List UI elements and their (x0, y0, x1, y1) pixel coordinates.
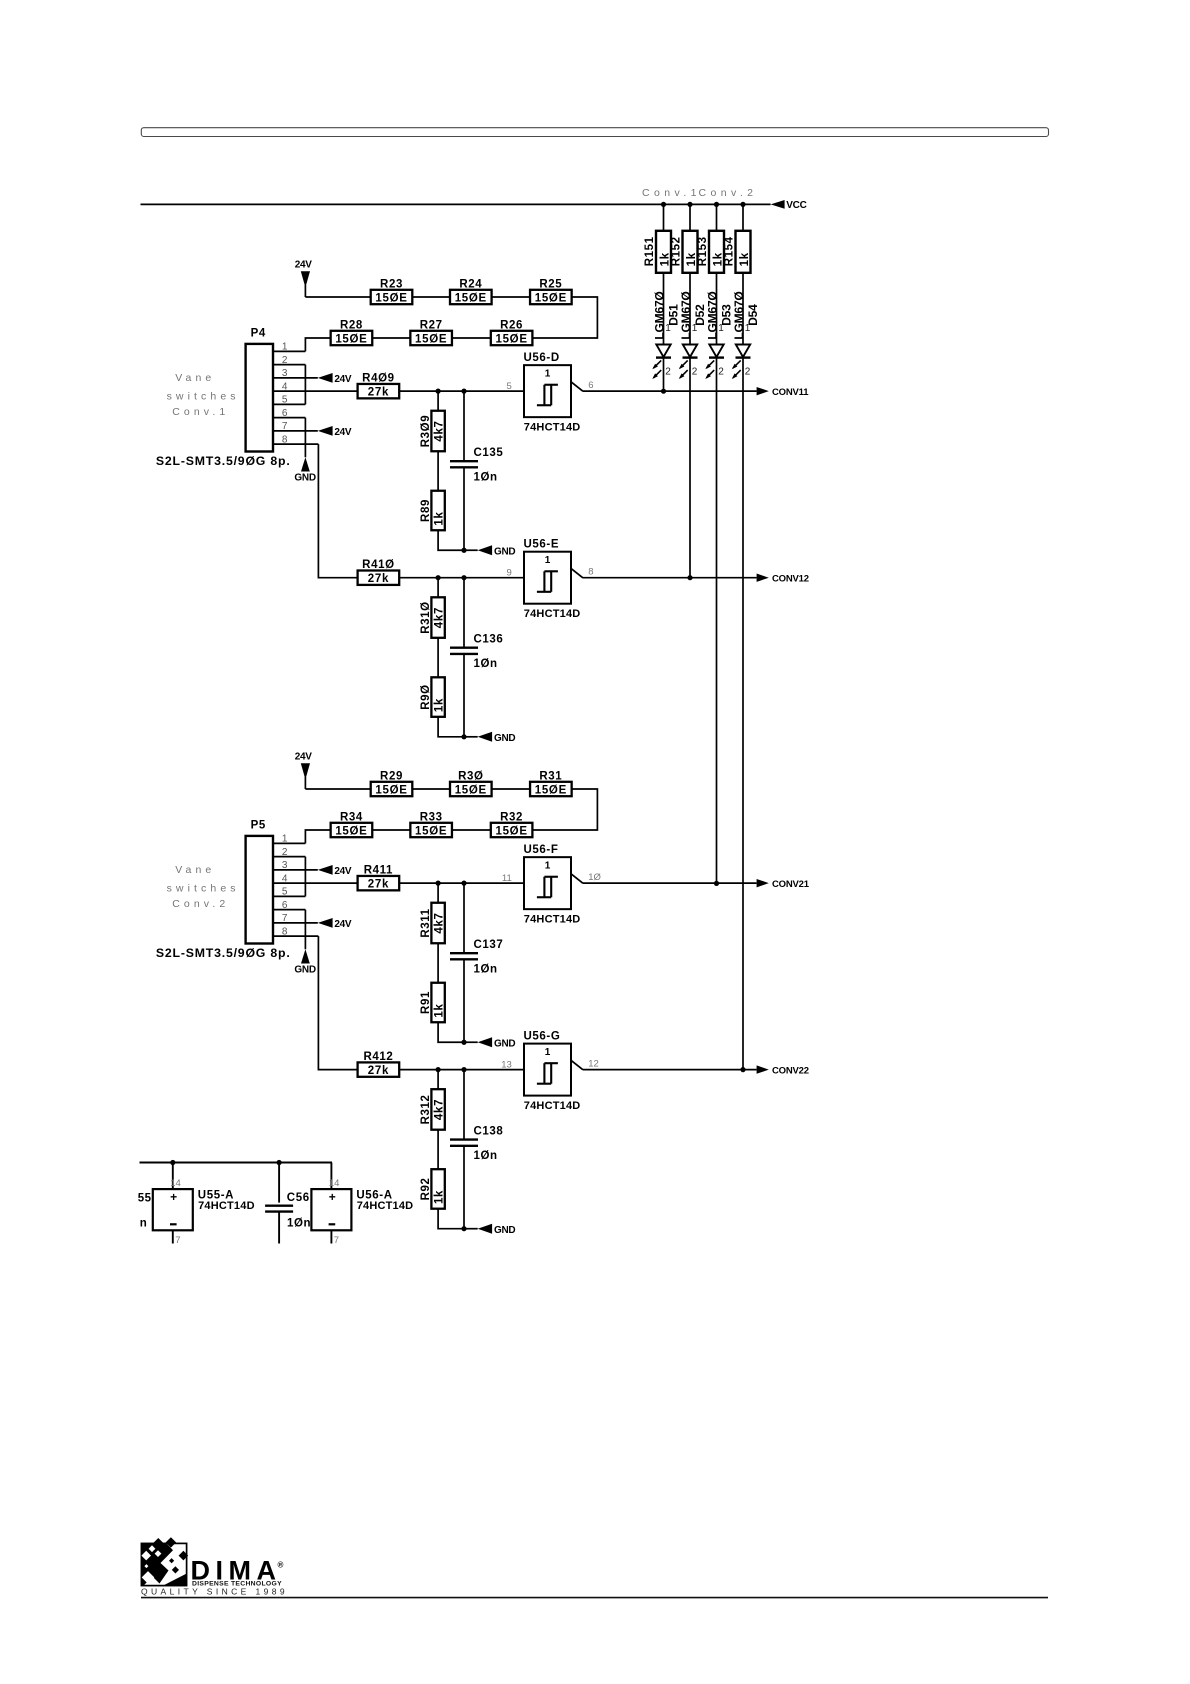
wire (399, 390, 524, 392)
svg-text:2: 2 (745, 367, 751, 378)
inverter U56-F (524, 857, 583, 909)
wire bracket pins 2-5 (304, 857, 306, 897)
svg-text:15ØE: 15ØE (495, 825, 527, 837)
wire (273, 935, 318, 937)
svg-text:27k: 27k (368, 878, 389, 890)
wire (463, 959, 465, 1042)
svg-text:R92: R92 (420, 1177, 432, 1200)
svg-text:2: 2 (692, 367, 698, 378)
resistor R9&#216; (431, 677, 444, 717)
wire (412, 296, 450, 298)
wire (273, 856, 305, 858)
capacitor C136 (450, 648, 478, 654)
LED D51 LGM67&#216; (652, 345, 671, 380)
power pins U55-A (153, 1189, 193, 1230)
resistor R25 (530, 290, 572, 304)
ground (478, 1224, 516, 1236)
svg-text:9: 9 (507, 568, 512, 579)
wire (399, 1069, 524, 1071)
LED D53 LGM67&#216; (705, 345, 724, 380)
svg-text:1: 1 (545, 555, 551, 566)
junction (277, 1160, 282, 1165)
svg-text:S2L-SMT3.5/9ØG 8p.: S2L-SMT3.5/9ØG 8p. (156, 454, 291, 468)
junction (461, 734, 466, 739)
wire bracket pins 2-5 (304, 365, 306, 405)
svg-text:15ØE: 15ØE (495, 333, 527, 345)
wire (438, 717, 464, 737)
svg-text:Conv.1: Conv.1 (642, 187, 701, 199)
svg-text:27k: 27k (368, 573, 389, 585)
svg-text:8: 8 (588, 567, 593, 578)
svg-text:R3Ø: R3Ø (458, 770, 483, 782)
svg-text:P5: P5 (251, 820, 266, 832)
junction (461, 1226, 466, 1231)
svg-text:R89: R89 (420, 499, 432, 522)
power 24V (318, 865, 352, 877)
svg-text:1k: 1k (712, 252, 724, 266)
svg-text:Vane: Vane (175, 372, 215, 384)
wire (464, 549, 478, 551)
svg-text:1k: 1k (434, 698, 446, 712)
junction (714, 202, 719, 207)
wire (437, 578, 439, 598)
svg-text:U56-G: U56-G (524, 1030, 561, 1042)
ground (294, 949, 315, 975)
svg-text:CONV21: CONV21 (772, 879, 810, 890)
svg-text:R24: R24 (459, 278, 482, 290)
svg-text:R3Ø9: R3Ø9 (420, 415, 432, 447)
svg-text:1Øn: 1Øn (474, 963, 498, 975)
svg-text:74HCT14D: 74HCT14D (524, 913, 581, 925)
wire (372, 337, 410, 339)
wire CONV11 row (583, 390, 757, 392)
svg-text:1: 1 (718, 323, 724, 334)
svg-text:+: + (170, 1190, 177, 1204)
wire (372, 829, 410, 831)
svg-text:Vane: Vane (175, 864, 215, 876)
svg-text:R32: R32 (500, 811, 523, 823)
svg-text:Conv.2: Conv.2 (172, 898, 229, 910)
resistor R31&#216; (431, 597, 444, 638)
wire (689, 204, 691, 230)
svg-text:R151: R151 (644, 236, 656, 266)
ground (478, 545, 516, 557)
wire CONV22 row (583, 1069, 757, 1071)
wire (438, 1022, 464, 1042)
wire VCC rail (141, 203, 771, 205)
wire (273, 443, 318, 445)
wire (273, 909, 305, 911)
wire (438, 530, 464, 550)
resistor R92 (431, 1169, 444, 1209)
svg-text:P4: P4 (251, 328, 266, 340)
wire C56 bottom (278, 1212, 280, 1244)
power 24V (318, 373, 352, 385)
wire (273, 417, 305, 419)
wire (399, 882, 524, 884)
svg-text:1k: 1k (686, 252, 698, 266)
svg-text:CONV11: CONV11 (772, 387, 809, 398)
junction (714, 881, 719, 886)
resistor R89 (431, 491, 444, 531)
svg-text:1: 1 (545, 1047, 551, 1058)
wire pin8 down (318, 444, 357, 578)
svg-text:1: 1 (545, 861, 551, 872)
svg-text:U56-F: U56-F (524, 844, 559, 856)
svg-text:R312: R312 (420, 1094, 432, 1124)
svg-text:15ØE: 15ØE (455, 292, 487, 304)
svg-text:®: ® (278, 1561, 284, 1570)
svg-text:55: 55 (138, 1193, 152, 1205)
note vane switches Conv.2 (167, 864, 240, 910)
svg-text:12: 12 (588, 1059, 599, 1070)
net CONV11 (757, 387, 810, 398)
wire (463, 883, 465, 953)
capacitor C137 (450, 953, 478, 959)
wire (532, 297, 598, 338)
svg-text:GND: GND (494, 546, 515, 557)
resistor R3&#216;9 (431, 411, 444, 452)
svg-text:15ØE: 15ØE (415, 333, 447, 345)
svg-text:U56-D: U56-D (524, 352, 560, 364)
ground (478, 1037, 516, 1049)
resistor R154 (736, 231, 751, 273)
junction (436, 881, 441, 886)
svg-text:R23: R23 (380, 278, 403, 290)
power VCC (771, 200, 807, 211)
svg-text:1: 1 (665, 323, 671, 334)
wire (437, 1130, 439, 1170)
svg-text:S2L-SMT3.5/9ØG 8p.: S2L-SMT3.5/9ØG 8p. (156, 946, 291, 960)
wire (273, 895, 305, 897)
capacitor C135 (450, 461, 478, 467)
resistor R27 (410, 331, 452, 345)
resistor R311 (431, 903, 444, 944)
wire (412, 788, 450, 790)
junction (461, 1067, 466, 1072)
junction (661, 389, 666, 394)
svg-text:4k7: 4k7 (434, 1099, 446, 1120)
wire bracket pins 6-8 (304, 910, 306, 950)
resistor R3&#216; (450, 782, 492, 796)
svg-text:74HCT14D: 74HCT14D (524, 1100, 581, 1112)
wire CONV12 row (583, 577, 757, 579)
wire (452, 337, 490, 339)
svg-text:Conv.1: Conv.1 (172, 406, 229, 418)
resistor R31 (530, 782, 572, 796)
LED D54 LGM67&#216; (732, 345, 751, 380)
net CONV22 (757, 1065, 809, 1076)
wire pin 14 (330, 1163, 332, 1190)
wire (437, 943, 439, 983)
power 24V (295, 752, 313, 789)
svg-text:switches: switches (167, 882, 240, 894)
wire (463, 1070, 465, 1140)
junction (436, 575, 441, 580)
wire (305, 296, 371, 298)
wire pin 7 (330, 1230, 332, 1243)
svg-text:R411: R411 (364, 865, 393, 877)
LED D52 LGM67&#216; (679, 345, 698, 380)
svg-text:R31: R31 (539, 770, 562, 782)
svg-text:6: 6 (588, 380, 593, 391)
capacitor C56 (265, 1206, 293, 1212)
svg-text:1k: 1k (739, 252, 751, 266)
svg-text:24V: 24V (334, 919, 352, 930)
wire D54 anode (742, 273, 744, 345)
svg-text:GND: GND (494, 1038, 515, 1049)
svg-text:4k7: 4k7 (434, 912, 446, 933)
wire pin 1 to resistors (305, 338, 330, 351)
wire (273, 882, 358, 884)
svg-text:13: 13 (501, 1060, 512, 1071)
junction (436, 389, 441, 394)
wire (438, 1209, 464, 1229)
svg-text:C135: C135 (474, 447, 504, 459)
svg-text:1Øn: 1Øn (474, 471, 498, 483)
svg-text:1Øn: 1Øn (287, 1217, 311, 1229)
wire (437, 451, 439, 491)
resistor R23 (371, 290, 413, 304)
svg-text:11: 11 (502, 873, 512, 884)
resistor R153 (709, 231, 724, 273)
svg-text:1k: 1k (434, 1003, 446, 1017)
svg-text:QUALITY SINCE 1989: QUALITY SINCE 1989 (141, 1586, 288, 1596)
svg-text:1k: 1k (434, 1190, 446, 1204)
svg-text:74HCT14D: 74HCT14D (357, 1200, 414, 1212)
svg-text:R29: R29 (380, 770, 403, 782)
resistor R410 (358, 571, 400, 585)
svg-text:15ØE: 15ØE (535, 784, 567, 796)
wire (273, 350, 305, 352)
wire (463, 578, 465, 648)
wire pin 7 (172, 1230, 174, 1243)
wire D54 cathode (742, 358, 744, 1070)
svg-text:2: 2 (665, 367, 671, 378)
svg-text:CONV12: CONV12 (772, 573, 809, 584)
wire pin 1 to resistors (305, 830, 330, 843)
wire pin 14 (172, 1163, 174, 1190)
resistor R412 (358, 1062, 400, 1076)
wire D52 anode (689, 273, 691, 345)
svg-text:C56: C56 (287, 1192, 310, 1204)
svg-text:R4Ø9: R4Ø9 (362, 373, 394, 385)
svg-text:1: 1 (745, 323, 751, 334)
svg-text:4k7: 4k7 (434, 420, 446, 441)
svg-text:1k: 1k (434, 511, 446, 525)
svg-text:R153: R153 (697, 236, 709, 266)
svg-text:1Øn: 1Øn (474, 1150, 498, 1162)
svg-text:1k: 1k (659, 252, 671, 266)
svg-text:R27: R27 (420, 319, 443, 331)
svg-text:R152: R152 (671, 236, 683, 266)
wire (273, 842, 305, 844)
svg-text:1: 1 (692, 323, 698, 334)
power pins U56-A (311, 1189, 351, 1230)
resistor R34 (331, 823, 373, 837)
svg-text:Conv.2: Conv.2 (699, 187, 758, 199)
wire CONV21 row (583, 882, 757, 884)
junction (436, 1067, 441, 1072)
svg-text:C136: C136 (474, 634, 504, 646)
svg-text:+: + (329, 1190, 336, 1204)
DIMA logo emblem (141, 1537, 188, 1585)
svg-text:24V: 24V (334, 427, 352, 438)
wire (452, 829, 490, 831)
note vane switches Conv.1 (167, 372, 240, 418)
svg-text:R26: R26 (500, 319, 523, 331)
svg-text:74HCT14D: 74HCT14D (198, 1200, 255, 1212)
wire D52 cathode (689, 358, 691, 578)
svg-text:15ØE: 15ØE (335, 333, 367, 345)
svg-text:1Ø: 1Ø (588, 872, 601, 883)
svg-text:2: 2 (718, 367, 724, 378)
resistor R24 (450, 290, 492, 304)
junction (740, 202, 745, 207)
svg-text:15ØE: 15ØE (375, 784, 407, 796)
wire C56 top (278, 1163, 280, 1203)
svg-text:CONV22: CONV22 (772, 1065, 809, 1076)
wire (273, 364, 305, 366)
svg-text:1Øn: 1Øn (474, 658, 498, 670)
resistor R28 (331, 331, 373, 345)
logo text DIMA (191, 1556, 284, 1586)
wire (437, 883, 439, 903)
wire (273, 377, 318, 379)
junction (461, 1040, 466, 1045)
resistor R151 (656, 231, 671, 273)
wire (273, 390, 358, 392)
wire (273, 403, 305, 405)
junction (461, 881, 466, 886)
wire (273, 430, 318, 432)
svg-text:15ØE: 15ØE (335, 825, 367, 837)
ground (294, 457, 315, 483)
svg-text:14: 14 (170, 1178, 181, 1189)
svg-text:GND: GND (294, 473, 315, 484)
svg-text:R31Ø: R31Ø (420, 601, 432, 633)
wire D51 anode (663, 273, 665, 345)
svg-text:15ØE: 15ØE (455, 784, 487, 796)
resistor R91 (431, 983, 444, 1023)
junction (687, 202, 692, 207)
wire (716, 204, 718, 230)
inverter U56-E (524, 552, 583, 604)
wire (492, 788, 530, 790)
svg-text:C137: C137 (474, 939, 504, 951)
svg-text:7: 7 (334, 1235, 339, 1246)
wire (492, 296, 530, 298)
wire (437, 391, 439, 411)
svg-text:7: 7 (175, 1235, 180, 1246)
wire bracket pins 6-8 (304, 418, 306, 458)
wire (399, 577, 524, 579)
svg-text:R9Ø: R9Ø (420, 684, 432, 709)
svg-text:GND: GND (494, 1225, 515, 1236)
wire D51 cathode (663, 358, 665, 392)
svg-text:15ØE: 15ØE (375, 292, 407, 304)
title frame bar (141, 128, 1048, 137)
wire (273, 869, 318, 871)
svg-text:R25: R25 (539, 278, 562, 290)
capacitor C138 (450, 1140, 478, 1146)
wire (273, 922, 318, 924)
svg-text:U56-E: U56-E (524, 539, 560, 551)
wire (532, 789, 598, 830)
svg-text:R28: R28 (340, 319, 363, 331)
resistor R152 (683, 231, 698, 273)
wire (463, 467, 465, 550)
svg-text:15ØE: 15ØE (415, 825, 447, 837)
svg-text:4k7: 4k7 (434, 607, 446, 628)
power 24V (318, 918, 352, 930)
resistor R32 (491, 823, 533, 837)
svg-text:switches: switches (167, 390, 240, 402)
wire (464, 736, 478, 738)
wire D53 cathode (716, 358, 718, 884)
wire (463, 1146, 465, 1229)
svg-text:C138: C138 (474, 1126, 504, 1138)
svg-text:R311: R311 (420, 908, 432, 937)
wire (437, 638, 439, 678)
svg-text:VCC: VCC (786, 200, 806, 211)
wire (663, 204, 665, 230)
wire (437, 1070, 439, 1090)
wire pin8 down (318, 936, 357, 1069)
wire (464, 1041, 478, 1043)
inverter U56-G (524, 1044, 583, 1096)
svg-text:R34: R34 (340, 811, 363, 823)
resistor R411 (358, 876, 400, 890)
svg-text:1: 1 (545, 369, 551, 380)
svg-text:24V: 24V (334, 866, 352, 877)
wire (463, 391, 465, 461)
connector P5 (246, 836, 273, 944)
ground (478, 732, 516, 744)
junction (661, 202, 666, 207)
svg-text:R33: R33 (420, 811, 443, 823)
svg-text:R412: R412 (363, 1051, 393, 1063)
net CONV12 (757, 573, 809, 584)
svg-text:74HCT14D: 74HCT14D (524, 421, 581, 433)
net CONV21 (757, 879, 810, 890)
junction (687, 575, 692, 580)
junction (461, 548, 466, 553)
svg-text:R41Ø: R41Ø (362, 559, 394, 571)
svg-text:24V: 24V (295, 752, 313, 763)
power 24V (318, 426, 352, 438)
resistor R26 (491, 331, 533, 345)
wire (464, 1228, 478, 1230)
connector P4 (246, 344, 273, 452)
junction (170, 1160, 175, 1165)
svg-text:n: n (140, 1217, 148, 1229)
svg-text:74HCT14D: 74HCT14D (524, 608, 581, 620)
svg-text:27k: 27k (368, 1065, 389, 1077)
wire (463, 654, 465, 737)
footer rule (141, 1597, 1048, 1599)
svg-text:27k: 27k (368, 386, 389, 398)
resistor R4&#216;9 (358, 384, 400, 398)
resistor R33 (410, 823, 452, 837)
svg-text:GND: GND (494, 733, 515, 744)
junction (461, 389, 466, 394)
resistor R312 (431, 1089, 444, 1130)
svg-text:GND: GND (294, 965, 315, 976)
junction (740, 1067, 745, 1072)
svg-text:14: 14 (329, 1178, 340, 1189)
inverter U56-D (524, 365, 583, 417)
